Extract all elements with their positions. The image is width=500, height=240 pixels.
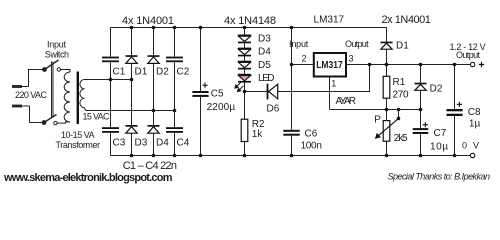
svg-text:Switch: Switch	[45, 49, 69, 59]
LED indicator	[238, 74, 251, 83]
wire D2-D4 column	[153, 28, 155, 156]
node AC source lower terminal	[12, 105, 30, 108]
wire C1-C3 column	[110, 28, 112, 156]
output terminal plus	[470, 62, 484, 67]
capacitor C1	[102, 57, 119, 63]
switch S1 lower pole	[42, 115, 57, 125]
svg-text:D4: D4	[156, 137, 169, 148]
svg-text:D2: D2	[156, 67, 169, 78]
node AC1 junctions	[109, 78, 134, 82]
svg-text:LM317: LM317	[314, 15, 345, 26]
svg-text:D3: D3	[135, 137, 148, 148]
node LED-D6 junction	[243, 90, 247, 94]
diode D3 chain	[238, 35, 251, 44]
svg-text:D6: D6	[267, 103, 280, 114]
wire D1 column	[386, 28, 388, 65]
svg-text:4x 1N4148: 4x 1N4148	[224, 15, 276, 27]
resistor R1	[383, 76, 390, 98]
svg-text:2x 1N4001: 2x 1N4001	[382, 14, 431, 26]
wire C5 column	[200, 28, 202, 156]
wire R1 leads	[386, 65, 388, 110]
wire D6 net	[245, 65, 370, 92]
capacitor C8 electrolytic	[447, 102, 463, 116]
svg-text:Input: Input	[47, 39, 66, 49]
diode D3 bridge	[126, 125, 138, 133]
wire diode chain column	[244, 28, 246, 120]
svg-text:D4: D4	[258, 47, 271, 58]
potentiometer P body	[383, 121, 390, 142]
switch S1 upper pole	[43, 60, 61, 71]
wire R2 to ground	[244, 142, 246, 156]
node wiper tie junction	[397, 117, 401, 121]
diode D6	[267, 84, 278, 100]
svg-text:15 VAC: 15 VAC	[83, 112, 111, 122]
LED arrows	[235, 82, 244, 91]
svg-text:Input: Input	[289, 39, 309, 49]
diode D2 protection	[415, 83, 427, 91]
diode D1 bridge	[126, 55, 138, 63]
svg-text:10-15 VA: 10-15 VA	[61, 130, 95, 140]
capacitor C6	[283, 130, 299, 136]
label 1.2 - 12 V Output	[450, 42, 486, 60]
wire bottom rail 0V	[111, 155, 471, 157]
diode D4 bridge	[148, 125, 160, 133]
svg-text:2: 2	[302, 54, 307, 64]
svg-text:D1: D1	[135, 67, 148, 78]
node top rail junctions	[130, 26, 294, 30]
label Input Switch	[45, 39, 69, 59]
svg-text:C3: C3	[113, 137, 126, 148]
wire switch to primary top	[61, 70, 70, 73]
capacitor C5 electrolytic	[192, 83, 208, 97]
svg-text:C8: C8	[468, 107, 481, 118]
svg-text:10µ: 10µ	[430, 141, 448, 152]
svg-text:2k5: 2k5	[394, 133, 408, 144]
svg-text:Special Thanks to: B.Ipekkan: Special Thanks to: B.Ipekkan	[388, 172, 491, 182]
svg-text:P: P	[374, 115, 381, 126]
label C8 value	[468, 107, 481, 130]
diode D4 chain	[238, 48, 251, 57]
svg-text:C4: C4	[177, 137, 190, 148]
svg-text:Transformer: Transformer	[56, 140, 101, 150]
node adj rail junctions	[385, 108, 423, 112]
svg-text:C6: C6	[305, 128, 318, 139]
svg-text:LED: LED	[258, 73, 275, 84]
wire C2-C4 column	[174, 28, 176, 156]
wire LM317 pin3 output rail	[347, 64, 470, 66]
svg-text:2200µ: 2200µ	[207, 102, 236, 113]
svg-text:D1: D1	[396, 41, 409, 52]
svg-text:D2: D2	[430, 83, 443, 94]
svg-text:3: 3	[349, 54, 354, 64]
node AC2 junctions	[152, 109, 177, 113]
svg-text:Output: Output	[456, 50, 480, 60]
svg-text:C5: C5	[211, 88, 224, 99]
wire lower source to switch	[30, 106, 43, 123]
resistor R2	[241, 119, 248, 141]
svg-text:www.skema-elektronik.blogspot.: www.skema-elektronik.blogspot.com	[3, 172, 173, 184]
capacitor C7 electrolytic	[413, 122, 429, 134]
label R2 value	[252, 119, 265, 140]
node input pin junction	[290, 63, 294, 67]
label R1 value	[393, 77, 409, 101]
wire pot leads	[386, 110, 388, 156]
wire C8 column	[454, 65, 456, 156]
wire upper source to switch	[29, 70, 44, 87]
diode D1 protection	[381, 42, 393, 50]
wire adj rail	[330, 109, 421, 111]
svg-text:AYAR: AYAR	[336, 96, 357, 107]
node bottom rail junctions	[130, 154, 457, 158]
node AC source upper terminal	[12, 85, 29, 88]
svg-text:Output: Output	[345, 39, 369, 49]
svg-text:1µ: 1µ	[469, 119, 481, 130]
svg-text:4x 1N4001: 4x 1N4001	[122, 15, 174, 27]
svg-text:C1: C1	[113, 67, 126, 78]
label C6 value	[301, 128, 322, 151]
svg-text:C2: C2	[177, 67, 190, 78]
svg-text:LM317: LM317	[316, 60, 343, 71]
wire pot wiper tie	[398, 110, 400, 119]
wire LM317 pin1 adj	[329, 77, 331, 110]
diode D2 bridge	[148, 55, 160, 63]
label C5 value	[207, 88, 236, 113]
capacitor C4	[166, 127, 183, 133]
wire switch to primary bottom	[57, 122, 70, 123]
capacitor C3	[102, 127, 119, 133]
transformer T1 core	[77, 72, 79, 125]
regulator U1 LM317	[314, 53, 346, 77]
svg-text:270: 270	[393, 90, 409, 101]
wire AC1 lead	[85, 79, 132, 81]
transformer T1 primary winding	[64, 72, 70, 122]
wire top rail DC+	[111, 27, 387, 29]
svg-text:0 V: 0 V	[462, 140, 479, 150]
svg-text:R1: R1	[393, 77, 406, 88]
svg-text:1: 1	[331, 79, 336, 89]
wire LM317 pin2 lead	[292, 64, 313, 66]
output terminal 0V	[470, 153, 474, 157]
svg-text:C7: C7	[434, 128, 447, 139]
diode D5 chain	[238, 61, 251, 70]
wire middle rail AC2	[87, 110, 175, 112]
svg-text:220 VAC: 220 VAC	[15, 90, 48, 100]
svg-text:D5: D5	[258, 60, 271, 71]
transformer T1 secondary winding	[80, 80, 87, 111]
wire C6 input column	[291, 28, 293, 156]
wire D1-D3 column	[131, 28, 133, 156]
svg-text:1k: 1k	[252, 129, 264, 140]
capacitor C2	[166, 57, 183, 63]
label 10-15 VA Transformer	[56, 130, 101, 150]
svg-text:100n: 100n	[301, 140, 322, 151]
node output rail junctions	[368, 63, 457, 67]
svg-text:D3: D3	[258, 34, 271, 45]
label C7 value	[430, 128, 448, 153]
svg-text:C1 – C4 22n: C1 – C4 22n	[123, 160, 177, 172]
wire D2 column	[420, 65, 422, 110]
switch linkage	[52, 62, 54, 118]
wire C7 column	[420, 110, 422, 156]
potentiometer P wiper arrow	[376, 118, 399, 138]
